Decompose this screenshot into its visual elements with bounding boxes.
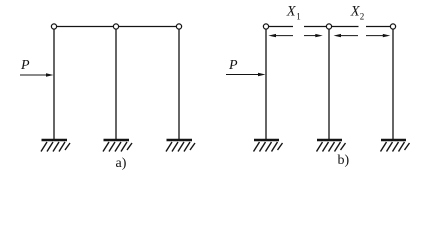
svg-text:2: 2 (360, 12, 365, 22)
svg-text:a): a) (116, 156, 127, 171)
svg-text:X: X (286, 3, 297, 19)
svg-text:1: 1 (296, 12, 301, 22)
svg-text:P: P (228, 58, 238, 73)
svg-text:b): b) (338, 153, 350, 168)
svg-text:P: P (20, 58, 30, 73)
